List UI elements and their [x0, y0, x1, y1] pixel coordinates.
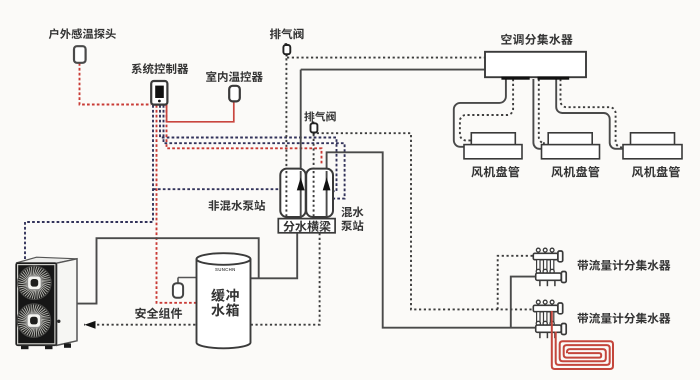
- svg-text:SUNCHN: SUNCHN: [215, 267, 236, 272]
